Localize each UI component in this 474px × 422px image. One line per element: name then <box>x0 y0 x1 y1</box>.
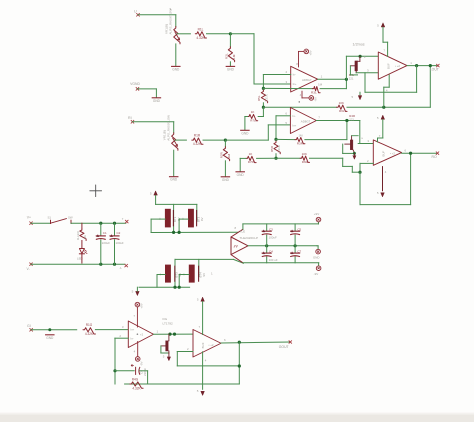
junction mosfet1 drain <box>359 55 362 58</box>
pin GI <box>27 324 33 331</box>
svg-text:R6R: R6R <box>302 160 309 164</box>
junction GI gnd <box>48 328 51 331</box>
node L-div junction <box>262 106 265 109</box>
battery V- arrow <box>132 287 140 295</box>
U5 pin2 wire <box>177 347 193 351</box>
op-amp U4 buffer <box>378 52 407 79</box>
svg-text:1M: 1M <box>227 154 231 159</box>
ground R7L <box>241 130 249 135</box>
V+ cap rail <box>243 223 319 225</box>
svg-text:C7: C7 <box>297 249 301 253</box>
resistor R6R 10K <box>300 152 309 164</box>
junction U3 out a <box>168 333 171 336</box>
U4 pin4 wire <box>384 75 389 107</box>
pin V+ <box>27 216 33 225</box>
U2 output wire <box>316 116 359 121</box>
svg-text:LOUT: LOUT <box>430 67 439 71</box>
svg-text:4.32K: 4.32K <box>196 36 205 40</box>
svg-text:• +2: • +2 <box>390 151 395 155</box>
GOUT fb drop <box>238 342 240 384</box>
U1 V- pin <box>300 91 309 98</box>
svg-text:4.32K: 4.32K <box>193 142 202 146</box>
wire R5L to node <box>262 103 264 107</box>
wire to C9 <box>115 370 134 372</box>
U3 output wire <box>154 329 194 334</box>
svg-text:220pF: 220pF <box>143 368 147 376</box>
U6 pin4 arrow <box>377 167 387 197</box>
node R-fb junction <box>274 138 277 141</box>
U1 V- supply circle <box>309 96 317 102</box>
svg-text:BUF: BUF <box>381 150 385 156</box>
op-amp U3A <box>128 321 153 348</box>
label 1/2mos <box>353 42 365 46</box>
wire node to R3L <box>263 87 312 89</box>
svg-text:BUF: BUF <box>386 63 390 69</box>
battery V+ arrow <box>150 191 158 195</box>
wire R2L to GND <box>229 62 231 66</box>
U5 V+ arrow <box>197 297 205 302</box>
svg-text:RI: RI <box>128 116 132 120</box>
U4 V+ arrow <box>377 23 385 28</box>
wire R1G to U3 <box>95 325 128 329</box>
wire wiper to R1L <box>177 33 190 35</box>
U3 V- supply circle <box>135 357 143 366</box>
battery top bus <box>156 195 197 204</box>
svg-text:TLE: TLE <box>240 229 246 233</box>
svg-text:GND: GND <box>227 67 235 71</box>
wire R1R to node <box>203 139 225 141</box>
svg-text:C5: C5 <box>297 227 301 231</box>
U4 output wire <box>407 65 438 67</box>
svg-text:GND: GND <box>313 256 319 260</box>
svg-text:221: 221 <box>349 76 354 80</box>
wire LI to pot <box>138 15 176 27</box>
wire GI to R1G <box>31 329 77 331</box>
label U5 name <box>163 317 174 326</box>
svg-text:GND: GND <box>172 67 180 71</box>
pin GOUT <box>224 338 292 349</box>
junction cap branch <box>113 369 116 372</box>
U5 fb wire <box>177 352 239 366</box>
junction C3C4 <box>265 244 268 247</box>
svg-text:NK: NK <box>83 235 87 239</box>
svg-text:SW: SW <box>68 215 73 219</box>
svg-text:• +2: • +2 <box>209 343 214 347</box>
svg-text:100uF: 100uF <box>116 241 124 245</box>
ground R2L <box>226 66 234 71</box>
svg-text:TLE2426CLP: TLE2426CLP <box>240 236 259 240</box>
junction bat2 <box>178 231 181 234</box>
node L-in junction <box>229 32 232 35</box>
wire node to U2 in+ <box>225 125 290 140</box>
svg-text:GND: GND <box>46 336 54 340</box>
svg-text:-9V: -9V <box>313 97 317 102</box>
resistor R1G <box>83 323 95 336</box>
G feedback bottom <box>125 383 240 385</box>
wire R6R to fb node <box>310 158 361 172</box>
svg-text:2.21K: 2.21K <box>264 94 268 102</box>
U5 V+ stem <box>198 302 202 335</box>
svg-text:-9V: -9V <box>140 361 144 366</box>
svg-text:BUF: BUF <box>201 342 205 348</box>
LED D1 <box>77 241 87 264</box>
U1 origin mark <box>299 101 300 102</box>
svg-text:1/2mos: 1/2mos <box>353 42 365 46</box>
junction C2 bottom <box>113 263 116 266</box>
U2 pin6 wire <box>276 112 290 116</box>
U6 V+ arrow <box>377 115 385 120</box>
junction U3 out b <box>173 333 176 336</box>
resistor R1L <box>195 27 206 40</box>
junction C5C7 <box>294 244 297 247</box>
svg-text:10K: 10K <box>339 101 344 105</box>
svg-text:In-: In- <box>293 73 296 77</box>
U1 pin3 label <box>286 80 288 84</box>
label R4R <box>349 114 355 121</box>
U4 V+ stem <box>383 27 388 56</box>
svg-text:R4G: R4G <box>132 378 139 382</box>
wire node to R7L <box>258 107 263 116</box>
svg-text:• +2: • +2 <box>395 64 400 68</box>
wire V- rail <box>31 263 125 265</box>
VGND supply circle <box>313 246 320 260</box>
V- cap rail <box>243 262 319 264</box>
junction fb mid <box>238 364 241 367</box>
svg-text:10K: 10K <box>302 152 307 156</box>
junction GOUT <box>238 341 241 344</box>
resistor R7L 1K <box>248 110 258 122</box>
wire node to R3R <box>276 138 295 140</box>
wire R2R to GND <box>224 161 226 176</box>
svg-text:GND: GND <box>241 131 249 135</box>
svg-text:2.21K: 2.21K <box>277 145 281 153</box>
svg-text:GND: GND <box>237 173 245 177</box>
resistor R6L 10K <box>337 101 347 113</box>
wire U2 out to mosfet2 <box>359 121 361 144</box>
svg-text:ALPS_RK097_SW: ALPS_RK097_SW <box>169 9 173 35</box>
node R-div junction <box>274 157 277 160</box>
capacitor C7 <box>291 246 302 263</box>
wire R6L to LOUT rail <box>347 66 430 108</box>
resistor R1R <box>192 134 203 147</box>
wire mosfet src to U4 in- <box>356 68 378 72</box>
svg-text:4.32K: 4.32K <box>132 386 141 390</box>
junction bat3 <box>173 286 176 289</box>
junction LOUT <box>429 64 432 67</box>
svg-text:S1: S1 <box>48 215 52 219</box>
svg-text:R1G: R1G <box>86 323 93 327</box>
svg-text:C4: C4 <box>269 249 273 253</box>
capacitor C5 <box>291 224 302 246</box>
svg-text:DG: DG <box>163 317 168 321</box>
svg-text:U: U <box>134 9 137 13</box>
sheet origin cross <box>90 185 102 197</box>
capacitor C3 <box>262 224 277 246</box>
resistor R5R vertical <box>270 139 281 153</box>
wire R7R to GND <box>240 158 246 171</box>
U1 output wire <box>318 75 347 80</box>
rail splitter U7 TLE2426 <box>231 226 258 263</box>
svg-text:1K: 1K <box>251 110 255 114</box>
svg-text:R3L: R3L <box>311 91 317 95</box>
op-amp U6 buffer <box>373 140 401 165</box>
resistor R5L vertical <box>257 88 268 102</box>
svg-text:GND: GND <box>153 99 161 103</box>
svg-text:C3: C3 <box>269 227 273 231</box>
wire R7L to GND <box>245 117 248 130</box>
resistor R2R <box>219 147 231 161</box>
op-amp U2A <box>290 108 316 134</box>
U6 V+ stem <box>378 120 383 142</box>
wire divider L <box>263 106 336 108</box>
wire switch to J+ <box>71 222 126 224</box>
svg-text:RO: RO <box>432 155 437 159</box>
svg-text:GOUT: GOUT <box>279 345 289 349</box>
svg-text:100 uF: 100 uF <box>269 258 278 262</box>
potentiometer VR1R <box>163 115 178 150</box>
wire divider R <box>276 157 300 159</box>
U4 feedback loop <box>365 66 417 93</box>
resistor R7R 1K <box>246 152 256 164</box>
svg-text:+2: +2 <box>140 333 144 337</box>
svg-text:221: 221 <box>349 118 354 122</box>
svg-text:4.32K: 4.32K <box>85 332 94 336</box>
U1 V+ pin <box>296 51 304 67</box>
U5 output wire <box>221 342 290 343</box>
ground pot R <box>170 177 178 182</box>
U2 inverting node wire <box>275 116 277 140</box>
node L-fb junction <box>262 87 265 90</box>
U5 pin4 stem <box>197 352 207 396</box>
svg-text:In-: In- <box>130 337 133 341</box>
junction C1 bottom <box>99 263 102 266</box>
op-amp U5 buffer <box>193 330 221 358</box>
battery BT3 <box>157 259 182 287</box>
svg-text:GND: GND <box>170 178 178 182</box>
svg-text:+9V: +9V <box>309 50 313 55</box>
svg-text:R1L: R1L <box>198 27 204 31</box>
svg-text:9V: 9V <box>200 217 204 221</box>
junction ROUT fb <box>409 152 412 155</box>
svg-text:1M: 1M <box>232 54 236 59</box>
svg-text:100uF: 100uF <box>269 236 277 240</box>
svg-text:R5L: R5L <box>257 95 261 101</box>
wire U1 out up to buffer <box>346 56 378 79</box>
pin ROUT <box>405 148 440 159</box>
wire node to R7R <box>257 157 276 159</box>
svg-text:V+: V+ <box>27 216 31 220</box>
mosfet Q2 <box>343 136 364 160</box>
junction bat1 <box>172 231 175 234</box>
switch S1 <box>48 215 73 223</box>
svg-text:GI: GI <box>27 324 31 328</box>
junction bat4 <box>178 286 181 289</box>
battery BT4 <box>179 259 206 287</box>
ground VGND <box>152 98 160 103</box>
capacitor C9 <box>131 364 147 376</box>
wire node to R2L <box>229 34 231 47</box>
svg-text:C2: C2 <box>117 231 121 235</box>
U1 V+ supply circle <box>304 49 313 55</box>
U2 pin5 label <box>285 121 287 125</box>
U1 inverting node wire <box>262 75 264 89</box>
U3 V+ supply circle <box>135 302 143 308</box>
battery BT2 <box>179 204 204 232</box>
svg-text:In-: In- <box>292 114 295 118</box>
wire V+ to switch <box>31 222 51 224</box>
+9V supply circle <box>314 212 321 224</box>
wire R1L to node <box>207 33 231 35</box>
ground R7R <box>236 172 244 177</box>
label R4L <box>349 73 355 80</box>
wire R3R to U2 out <box>305 121 347 140</box>
svg-text:LT1782: LT1782 <box>163 322 174 326</box>
battery BT1 <box>151 204 181 232</box>
mosfet Q1 <box>350 55 366 75</box>
svg-text:9V: 9V <box>202 273 206 277</box>
bottom toolbar strip <box>0 413 474 422</box>
svg-text:1K: 1K <box>249 152 253 156</box>
svg-text:In+: In+ <box>130 328 134 332</box>
junction U2 out <box>345 119 348 122</box>
U1 pin2 wire <box>263 70 290 74</box>
wire pot R to GND <box>173 150 175 176</box>
wire RI to pot <box>132 122 173 133</box>
wire TLE top corner up <box>242 224 244 229</box>
capacitor C2 <box>110 223 124 264</box>
battery lower bus <box>175 259 244 263</box>
wire TLE out <box>248 245 317 247</box>
wire node to R2R <box>224 140 226 147</box>
svg-text:V-: V- <box>27 267 30 271</box>
junction pin4 node <box>382 106 385 109</box>
svg-text:In+: In+ <box>293 82 297 86</box>
U3 V+ pin <box>133 307 137 327</box>
node R-in junction <box>224 139 227 142</box>
resistor R2L <box>224 47 236 62</box>
wire R3L to output <box>320 79 346 88</box>
U6 output wire <box>402 152 438 154</box>
svg-text:J-: J- <box>120 266 122 270</box>
pin LI <box>134 9 140 16</box>
svg-text:C1: C1 <box>103 231 107 235</box>
svg-text:1M: 1M <box>318 82 323 86</box>
junction U6 fb <box>358 171 361 174</box>
svg-text:VGND: VGND <box>130 82 140 86</box>
wire R5R to node <box>275 154 277 158</box>
svg-text:R2L: R2L <box>224 53 228 59</box>
mosfet Q3 <box>161 334 169 353</box>
svg-text:R1R: R1R <box>194 134 201 138</box>
potentiometer VR1L <box>165 9 180 44</box>
svg-text:GND: GND <box>222 178 230 182</box>
U3 V- pin <box>134 342 138 357</box>
wire node to U1 in+ <box>230 34 290 84</box>
V- arrow left buffer <box>352 92 362 100</box>
svg-text:I/V: I/V <box>234 245 239 249</box>
battery minus bus <box>151 231 238 233</box>
junction C1 top <box>99 222 102 225</box>
pin LOUT <box>410 61 439 72</box>
svg-text:R7R: R7R <box>248 160 255 164</box>
pin V- <box>27 263 33 271</box>
capacitor C4 <box>262 246 278 263</box>
svg-text:R-LED: R-LED <box>76 231 80 240</box>
ground GI <box>46 335 54 340</box>
ground R2R <box>221 177 229 182</box>
resistor R3R <box>295 133 305 145</box>
svg-text:+9V: +9V <box>314 212 319 216</box>
svg-text:ALPS_RK097_SW: ALPS_RK097_SW <box>167 115 171 141</box>
svg-text:+9V: +9V <box>139 303 143 308</box>
junction U1 out <box>345 78 348 81</box>
ground pot L <box>172 66 180 71</box>
svg-text:220uF: 220uF <box>102 241 110 245</box>
wire wiper to R1R <box>175 139 187 141</box>
pin RI <box>128 116 134 123</box>
pin J- <box>120 264 128 270</box>
LED resistor <box>76 223 87 240</box>
junction U4 fb <box>415 64 418 67</box>
op-amp U1A <box>291 66 318 92</box>
-9V supply circle <box>314 263 321 276</box>
wire mosfet2 to U6 in+ <box>358 139 373 143</box>
wire R4G to U3 in- <box>114 338 116 384</box>
svg-text:R3R: R3R <box>297 142 304 146</box>
svg-text:1M: 1M <box>298 133 303 137</box>
resistor R4G <box>130 378 143 391</box>
wire VGND to ground <box>137 89 156 97</box>
svg-text:R2R: R2R <box>219 151 223 158</box>
svg-text:In+: In+ <box>292 123 296 127</box>
svg-text:-9V: -9V <box>314 272 319 276</box>
U3 pin2 wire <box>115 334 129 338</box>
wire pot to GND <box>175 44 177 66</box>
pin number 3 pot top <box>170 7 172 11</box>
U6 pin2 wire <box>360 159 373 172</box>
pin VGND <box>130 82 140 91</box>
junction C2 top <box>113 222 116 225</box>
svg-text:R7L: R7L <box>250 118 256 122</box>
svg-text:R5R: R5R <box>270 145 274 152</box>
U6 feedback loop <box>360 153 411 204</box>
Q3 V- arrow <box>163 353 171 361</box>
battery bottom bus <box>139 286 190 288</box>
pin J+ <box>122 217 129 223</box>
capacitor C1 <box>96 223 110 264</box>
resistor R3L <box>311 82 323 94</box>
junction LED <box>0 0 1 1</box>
svg-text:R6L: R6L <box>339 109 345 113</box>
svg-text:AD8G7: AD8G7 <box>302 78 312 82</box>
svg-text:AD8G7: AD8G7 <box>301 119 311 123</box>
label 1 <box>211 272 213 276</box>
wire C9 to fb <box>140 371 148 384</box>
